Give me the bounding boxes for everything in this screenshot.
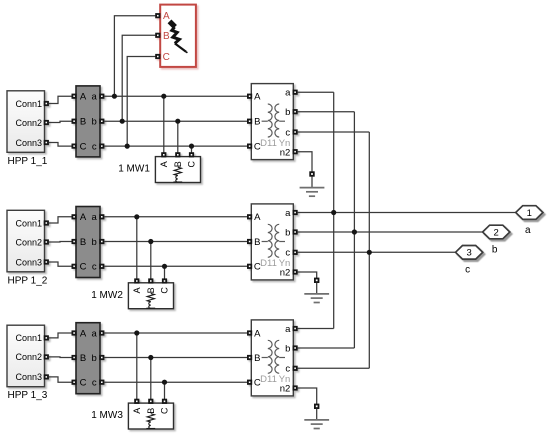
ground G1 port square	[310, 172, 314, 176]
port B	[72, 240, 75, 243]
wire load1 phase A drop	[163, 96, 165, 152]
svg-text:Conn1: Conn1	[15, 218, 42, 228]
port b	[293, 346, 296, 349]
secondary winding lead of T1	[279, 120, 285, 122]
svg-text:b: b	[285, 227, 290, 238]
svg-text:HPP 1_3: HPP 1_3	[8, 390, 48, 401]
port c	[100, 144, 103, 147]
svg-text:b: b	[92, 237, 97, 248]
wire fault F1 phase B to bus b1	[122, 35, 155, 121]
svg-text:c: c	[92, 378, 97, 389]
primary winding lead of T1	[262, 120, 268, 122]
svg-text:B: B	[80, 117, 86, 128]
resistor zigzag of load 1	[174, 167, 181, 175]
svg-text:Conn2: Conn2	[15, 118, 42, 128]
ground G1 bar 2	[306, 191, 318, 193]
bus wire a2 (B2 a to T2 A)	[104, 216, 248, 218]
wire load3 phase B drop	[150, 358, 152, 400]
port B	[149, 400, 152, 403]
svg-text:Yn: Yn	[279, 374, 291, 385]
three-phase fault block F1	[156, 5, 196, 67]
port n2	[293, 386, 296, 389]
wire HPP1_1 Conn1 to B1 A	[49, 96, 73, 103]
svg-text:Conn3: Conn3	[15, 138, 42, 148]
svg-text:B: B	[254, 117, 260, 128]
primary winding coil of T1	[268, 104, 272, 137]
port b	[100, 240, 103, 243]
bus wire c3 (B3 c to T3 C)	[104, 381, 248, 383]
svg-text:a: a	[92, 212, 98, 223]
svg-text:A: A	[254, 92, 261, 103]
port C	[248, 144, 251, 147]
svg-text:Conn3: Conn3	[15, 372, 42, 382]
svg-text:B: B	[254, 237, 260, 248]
port C	[163, 400, 166, 403]
wire HPP1_1 Conn3 to B1 C	[49, 143, 73, 147]
transformer T3 (D11 Yn three-phase)	[248, 320, 297, 396]
load 1 terminal bar	[173, 181, 182, 183]
wire load3 phase A drop	[136, 333, 138, 399]
svg-text:C: C	[80, 142, 87, 153]
wire load1 phase B drop	[177, 121, 179, 152]
ground G2 port square	[315, 279, 319, 283]
port Conn2	[45, 355, 48, 358]
svg-text:A: A	[254, 328, 261, 339]
secondary winding lead of T3	[279, 357, 285, 359]
vertical tie bus phase b	[353, 112, 355, 348]
ground G2 stem	[316, 283, 318, 294]
secondary winding coil of T2	[275, 224, 279, 257]
inductor coil of load 2	[149, 302, 151, 309]
port a	[293, 327, 296, 330]
svg-text:n2: n2	[280, 147, 291, 158]
port A	[156, 14, 159, 17]
port Conn3	[45, 375, 48, 378]
port C	[72, 381, 75, 384]
svg-text:b: b	[492, 244, 498, 255]
junction node tie-b2	[352, 229, 357, 234]
svg-text:a: a	[92, 92, 98, 103]
port A	[72, 215, 75, 218]
svg-text:Conn1: Conn1	[15, 333, 42, 343]
port a	[293, 91, 296, 94]
port a	[100, 215, 103, 218]
wire T2 a to output port 1	[297, 212, 515, 214]
output port 1 (phase a)	[516, 206, 543, 220]
junction node tie-c2	[367, 250, 372, 255]
port Conn3	[45, 141, 48, 144]
wire HPP1_2 Conn1 to B2 A	[49, 217, 73, 223]
svg-text:B: B	[146, 408, 156, 414]
svg-text:A: A	[254, 212, 261, 223]
port A	[248, 331, 251, 334]
port C	[248, 265, 251, 268]
svg-text:b: b	[92, 353, 97, 364]
svg-text:1 MW2: 1 MW2	[91, 290, 123, 301]
three-phase interface subsystem B3	[72, 323, 103, 394]
svg-text:D11: D11	[260, 258, 277, 269]
junction node a3-load	[134, 330, 139, 335]
junction node c1-load	[189, 144, 194, 149]
svg-text:D11: D11	[260, 138, 277, 149]
port B	[156, 34, 159, 37]
svg-text:c: c	[285, 248, 290, 259]
svg-text:A: A	[159, 161, 169, 167]
wire T1 b output	[297, 111, 354, 113]
port B	[176, 153, 179, 156]
ground G1 bar 3	[309, 195, 315, 197]
svg-text:3: 3	[466, 248, 471, 259]
svg-text:C: C	[160, 407, 170, 414]
svg-text:c: c	[465, 265, 470, 276]
junction node tie-a2	[331, 210, 336, 215]
junction node a1-load	[161, 94, 166, 99]
bus wire c1 (B1 c to T1 C)	[104, 145, 248, 147]
port a	[100, 95, 103, 98]
port c	[100, 381, 103, 384]
ground G2	[304, 279, 329, 303]
wire T2 c to output port 3	[297, 251, 455, 253]
svg-text:1 MW3: 1 MW3	[91, 410, 123, 421]
svg-text:HPP 1_1: HPP 1_1	[8, 156, 48, 167]
svg-text:Yn: Yn	[279, 138, 291, 149]
junction node b2-load	[148, 239, 153, 244]
bus wire b2 (B2 b to T2 B)	[104, 241, 248, 243]
svg-text:n2: n2	[280, 384, 291, 395]
svg-text:1: 1	[527, 208, 532, 219]
ground G3 port square	[315, 405, 319, 409]
svg-text:A: A	[80, 92, 87, 103]
port B	[149, 279, 152, 282]
svg-text:B: B	[80, 237, 86, 248]
wire T3 b output	[297, 347, 354, 349]
port B	[248, 120, 251, 123]
svg-text:C: C	[187, 160, 197, 167]
port c	[100, 265, 103, 268]
port C	[72, 144, 75, 147]
wire T3 c output	[297, 367, 369, 369]
port Conn2	[45, 240, 48, 243]
port C	[190, 153, 193, 156]
svg-text:A: A	[132, 287, 142, 293]
lightning bolt symbol inside fault F1	[170, 21, 188, 53]
svg-text:HPP 1_2: HPP 1_2	[8, 275, 48, 286]
junction node fault-b1	[120, 119, 125, 124]
wire T1 c output	[297, 131, 369, 133]
ground G1 stem	[311, 176, 313, 187]
svg-text:a: a	[285, 208, 291, 219]
ground G2 bar 1	[304, 293, 329, 295]
svg-text:b: b	[92, 117, 97, 128]
wire HPP1_2 Conn2 to B2 B	[49, 241, 73, 244]
wire fault F1 phase C to bus c1	[127, 57, 155, 147]
wire load2 phase A drop	[136, 217, 138, 279]
svg-text:c: c	[92, 262, 97, 273]
svg-text:B: B	[173, 161, 183, 167]
ground G3 bar 3	[314, 428, 320, 430]
secondary winding coil of T1	[275, 104, 279, 137]
svg-text:a: a	[285, 324, 291, 335]
wire T1 n2 to ground	[297, 152, 312, 172]
port b	[100, 356, 103, 359]
bus wire c2 (B2 c to T2 C)	[104, 265, 248, 267]
svg-text:A: A	[163, 11, 170, 22]
junction node b3-load	[148, 355, 153, 360]
junction node c3-load	[162, 380, 167, 385]
port Conn1	[45, 102, 48, 105]
svg-text:B: B	[146, 287, 156, 293]
port C	[248, 381, 251, 384]
primary winding coil of T3	[268, 340, 272, 373]
port A	[135, 400, 138, 403]
ground G1	[300, 172, 325, 196]
ground G2 bar 3	[314, 302, 320, 304]
port C	[163, 279, 166, 282]
svg-text:c: c	[285, 364, 290, 375]
svg-text:D11: D11	[260, 374, 277, 385]
wire T3 a output	[297, 328, 333, 330]
subsystem HPP 1_3 (hydro power plant source block)	[7, 325, 48, 387]
ground G3 bar 1	[304, 419, 329, 421]
svg-text:C: C	[80, 262, 87, 273]
primary winding lead of T3	[262, 357, 268, 359]
transformer T1 (D11 Yn three-phase)	[248, 84, 297, 160]
wire load2 phase B drop	[150, 242, 152, 279]
svg-text:2: 2	[494, 227, 499, 238]
inductor coil of load 1	[176, 176, 178, 183]
svg-text:Conn3: Conn3	[15, 257, 42, 267]
svg-text:b: b	[285, 343, 290, 354]
wire HPP1_2 Conn3 to B2 C	[49, 262, 73, 266]
ground G3 stem	[316, 409, 318, 420]
svg-text:A: A	[80, 212, 87, 223]
svg-text:C: C	[80, 378, 87, 389]
transformer T2 (D11 Yn three-phase)	[248, 204, 297, 280]
port b	[293, 230, 296, 233]
junction node b1-load	[175, 119, 180, 124]
three-phase load 1 MW2	[128, 279, 173, 308]
junction node fault-c1	[125, 144, 130, 149]
subsystem HPP 1_1 (hydro power plant source block)	[7, 91, 48, 153]
svg-text:A: A	[80, 328, 87, 339]
svg-text:B: B	[163, 31, 170, 42]
wire HPP1_3 Conn3 to B3 C	[49, 377, 73, 382]
svg-text:C: C	[160, 287, 170, 294]
port n2	[293, 270, 296, 273]
port A	[72, 95, 75, 98]
load 3 terminal bar	[146, 428, 155, 430]
bus wire b3 (B3 b to T3 B)	[104, 357, 248, 359]
wire HPP1_3 Conn1 to B3 A	[49, 333, 73, 338]
svg-text:1 MW1: 1 MW1	[118, 164, 150, 175]
svg-text:Conn1: Conn1	[15, 99, 42, 109]
vertical tie bus phase a	[333, 92, 335, 328]
ground G1 bar 1	[300, 187, 325, 189]
bus wire a1 (B1 a to T1 A)	[104, 95, 248, 97]
port A	[248, 215, 251, 218]
port c	[293, 130, 296, 133]
wire T1 a output	[297, 91, 333, 93]
svg-text:a: a	[92, 328, 98, 339]
three-phase interface subsystem B1	[72, 86, 103, 157]
port B	[72, 120, 75, 123]
port n2	[293, 150, 296, 153]
wire HPP1_3 Conn2 to B3 B	[49, 356, 73, 359]
port C	[72, 265, 75, 268]
port Conn1	[45, 221, 48, 224]
svg-text:Conn2: Conn2	[15, 237, 42, 247]
port Conn1	[45, 336, 48, 339]
primary winding lead of T2	[262, 241, 268, 243]
primary winding coil of T2	[268, 224, 272, 257]
secondary winding coil of T3	[275, 340, 279, 373]
port c	[293, 251, 296, 254]
port A	[72, 331, 75, 334]
wire T3 n2 to ground	[297, 388, 316, 404]
three-phase interface subsystem B2	[72, 207, 103, 278]
ground G2 bar 2	[311, 297, 323, 299]
port C	[156, 55, 159, 58]
output port 2 (phase b)	[483, 225, 510, 239]
port Conn3	[45, 260, 48, 263]
output port 3 (phase c)	[456, 246, 483, 260]
vertical tie bus phase c	[368, 132, 370, 368]
port B	[248, 356, 251, 359]
three-phase load 1 MW1	[155, 153, 200, 182]
wire load1 phase C drop	[191, 146, 193, 153]
bus wire b1 (B1 b to T1 B)	[104, 120, 248, 122]
port b	[293, 110, 296, 113]
wire fault F1 phase A to bus a1	[114, 16, 155, 97]
wire load2 phase C drop	[164, 266, 166, 279]
port a	[100, 331, 103, 334]
inductor coil of load 3	[149, 422, 151, 429]
port a	[293, 211, 296, 214]
svg-text:c: c	[285, 127, 290, 138]
three-phase load 1 MW3	[128, 400, 173, 429]
wire T2 b to output port 2	[297, 231, 482, 233]
resistor zigzag of load 2	[147, 293, 154, 301]
svg-text:n2: n2	[280, 268, 291, 279]
junction node fault-a1	[112, 94, 117, 99]
ground G3 bar 2	[311, 423, 323, 425]
port A	[162, 153, 165, 156]
wire HPP1_1 Conn2 to B1 B	[49, 121, 73, 122]
svg-text:Yn: Yn	[279, 258, 291, 269]
load 2 terminal bar	[146, 307, 155, 309]
svg-text:B: B	[80, 353, 86, 364]
resistor zigzag of load 3	[147, 414, 154, 422]
bus wire a3 (B3 a to T3 A)	[104, 332, 248, 334]
junction node c2-load	[162, 264, 167, 269]
svg-text:c: c	[92, 142, 97, 153]
port Conn2	[45, 121, 48, 124]
wire load3 phase C drop	[164, 382, 166, 399]
port c	[293, 367, 296, 370]
junction node a2-load	[134, 214, 139, 219]
svg-text:A: A	[132, 408, 142, 414]
subsystem HPP 1_2 (hydro power plant source block)	[7, 210, 48, 271]
port b	[100, 120, 103, 123]
port B	[248, 240, 251, 243]
port A	[135, 279, 138, 282]
svg-text:b: b	[285, 107, 290, 118]
svg-text:B: B	[254, 353, 260, 364]
port B	[72, 356, 75, 359]
port A	[248, 95, 251, 98]
svg-text:C: C	[163, 52, 170, 63]
svg-text:a: a	[525, 225, 531, 236]
svg-text:Conn2: Conn2	[15, 352, 42, 362]
svg-text:a: a	[285, 88, 291, 99]
wire T2 n2 to ground	[297, 272, 316, 278]
ground G3	[304, 405, 329, 429]
secondary winding lead of T2	[279, 241, 285, 243]
